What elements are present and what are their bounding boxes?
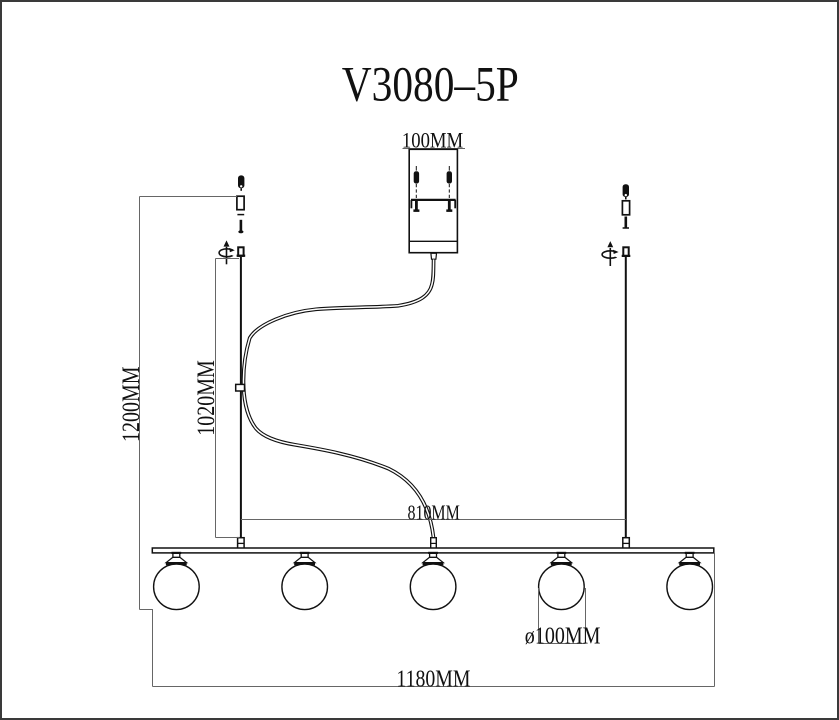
globe 3 (410, 564, 456, 610)
left rod top connector (237, 247, 246, 257)
right rotation symbol (602, 241, 622, 266)
right suspension: anchor (623, 184, 629, 199)
dimension 100MM line (403, 148, 466, 150)
power cord (S-curve, double line) (243, 260, 433, 538)
right rod (625, 257, 627, 540)
left suspension: dash (237, 214, 244, 216)
screw left in canopy (413, 166, 419, 212)
fitter 3 (423, 553, 444, 566)
center cord connector above bar (431, 538, 437, 549)
left rod bead (236, 384, 245, 391)
canopy box (409, 149, 457, 252)
svg-text:810MM: 810MM (408, 502, 461, 526)
dimension 1200MM (117, 197, 237, 610)
left rod (240, 257, 242, 538)
left suspension: anchor (238, 175, 244, 190)
left suspension: pin (238, 220, 243, 234)
globe 5 (667, 564, 713, 610)
screw right in canopy (446, 166, 452, 212)
left suspension: sleeve (237, 196, 244, 210)
bar (152, 548, 714, 553)
dimension 1180MM (153, 553, 715, 692)
svg-text:ø100MM: ø100MM (525, 622, 601, 649)
right suspension: sleeve (622, 201, 629, 215)
svg-text:V3080–5P: V3080–5P (342, 56, 519, 111)
canopy stem (431, 253, 437, 259)
dimension 100MM label (402, 129, 463, 153)
right rod top connector (622, 247, 631, 257)
dimension 810MM (241, 502, 626, 526)
dimension 1020MM (192, 259, 240, 538)
svg-text:1020MM: 1020MM (192, 360, 220, 436)
left rotation symbol (219, 240, 238, 264)
dimension ø100MM (525, 588, 601, 649)
fitter 5 (679, 553, 700, 566)
fitter 1 (166, 553, 187, 566)
title V3080-5P (342, 56, 519, 111)
right suspension: pin (623, 217, 629, 229)
globe 4 (539, 564, 585, 610)
svg-text:1180MM: 1180MM (396, 665, 470, 692)
right rod bottom connector (623, 538, 630, 549)
left rod bottom connector (238, 538, 245, 549)
fitter 2 (294, 553, 315, 566)
globe 1 (154, 564, 200, 610)
mounting strap (411, 200, 456, 208)
globe 2 (282, 564, 328, 610)
fitter 4 (551, 553, 572, 566)
svg-text:1200MM: 1200MM (117, 366, 145, 442)
